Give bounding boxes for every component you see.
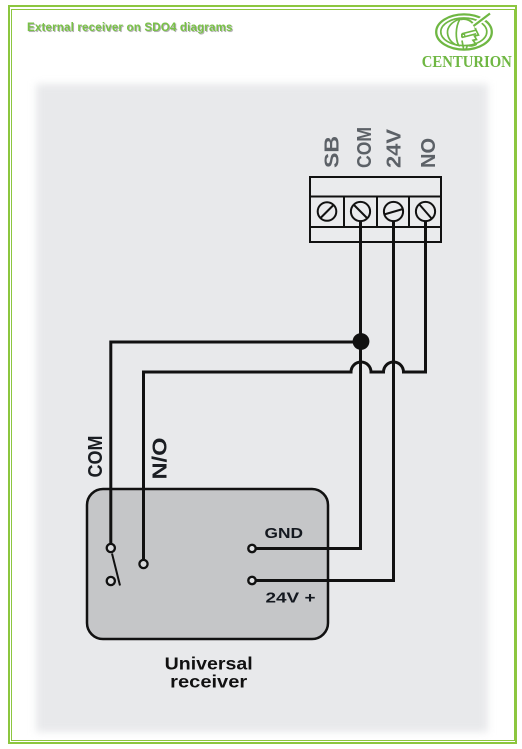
wire NO terminal to N/O contact with hops — [144, 221, 426, 560]
screw terminal 24V — [384, 202, 403, 221]
svg-text:24V +: 24V + — [266, 591, 316, 607]
wire COM terminal to GND — [257, 221, 361, 549]
terminal cell divider 3 — [408, 197, 410, 228]
logo plume — [474, 14, 491, 27]
svg-text:GND: GND — [265, 526, 304, 542]
24V+ terminal circle — [248, 577, 255, 584]
logo helmet crest crescent — [447, 19, 460, 46]
terminal block top divider — [310, 196, 441, 198]
svg-text:N/O: N/O — [150, 438, 172, 480]
logo ear circle — [462, 34, 465, 37]
receiver box — [87, 489, 328, 639]
logo outer ellipse — [436, 14, 492, 49]
screw terminal COM — [351, 202, 370, 221]
logo neck — [462, 41, 467, 50]
junction node — [353, 333, 370, 350]
svg-text:SB: SB — [322, 136, 344, 168]
screw terminal NO — [416, 202, 435, 221]
svg-text:Universal: Universal — [165, 654, 253, 674]
logo plume casing — [474, 13, 492, 27]
screw terminal SB — [318, 202, 337, 221]
GND terminal circle — [248, 545, 255, 552]
logo visor band — [462, 30, 476, 37]
svg-text:NO: NO — [418, 138, 440, 168]
switch N/O contact — [139, 560, 147, 568]
logo inner ellipse — [441, 18, 487, 46]
terminal cell divider 2 — [376, 197, 378, 228]
terminal block outline — [310, 177, 441, 242]
svg-text:receiver: receiver — [170, 672, 247, 692]
wire COM contact to junction — [111, 342, 361, 544]
wire 24V terminal to 24V+ — [257, 221, 394, 581]
svg-text:24V: 24V — [383, 128, 405, 168]
logo helmet dome — [461, 19, 477, 30]
logo face profile — [467, 30, 478, 46]
switch lower contact — [107, 577, 115, 585]
terminal cell divider 1 — [343, 197, 345, 228]
terminal block bottom divider — [310, 226, 441, 228]
switch COM contact — [107, 544, 115, 552]
switch lever — [112, 554, 120, 586]
svg-text:COM: COM — [354, 127, 376, 168]
svg-text:COM: COM — [85, 436, 107, 478]
